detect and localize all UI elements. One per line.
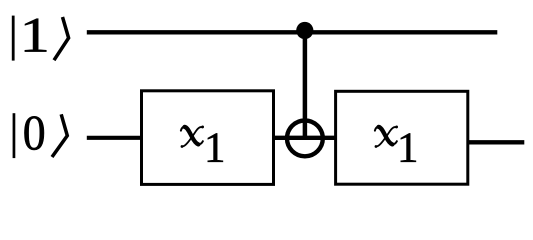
gate box X1 (second) bbox=[336, 91, 468, 184]
CNOT target circle on q0 bbox=[287, 120, 323, 156]
control dot on q1 bbox=[296, 22, 313, 39]
node q1 ket |1> label: bar bbox=[12, 16, 15, 61]
gate box 2 label x (script italic) bbox=[375, 126, 398, 148]
node q1 ket angle bracket bbox=[54, 17, 69, 60]
gate box X1 label subscript 1 bbox=[208, 133, 223, 161]
gate box 2 label subscript 1 bbox=[401, 133, 416, 161]
gate box X1 label x (script italic) bbox=[181, 126, 204, 148]
wire bottom-left segment bbox=[87, 136, 143, 140]
gate box X1 (first) bbox=[142, 91, 274, 185]
wire top qubit bbox=[87, 30, 498, 34]
wire vertical control line bbox=[303, 31, 308, 138]
node q1 ket digit 1 bbox=[25, 19, 46, 52]
node q0 ket digit 0 bbox=[24, 116, 44, 150]
wire bottom-right segment bbox=[466, 140, 524, 144]
node q0 ket angle bracket bbox=[52, 114, 67, 157]
wire middle segment bbox=[272, 136, 337, 140]
node q0 ket |0> label: bar bbox=[13, 113, 16, 158]
